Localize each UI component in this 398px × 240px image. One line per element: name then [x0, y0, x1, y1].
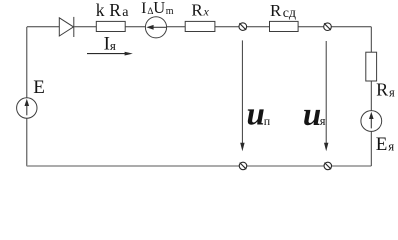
svg-text:E: E	[376, 134, 388, 155]
diode VD	[59, 17, 74, 37]
resistor Rсд	[270, 21, 299, 31]
terminal node bottom 2	[324, 162, 332, 170]
wire diode to resistor kRa	[74, 26, 96, 28]
svg-text:a: a	[122, 5, 129, 20]
wire source circle to resistor Rx	[167, 26, 186, 28]
svg-text:x: x	[203, 5, 210, 19]
svg-text:сд: сд	[283, 6, 296, 21]
svg-text:I: I	[141, 0, 146, 17]
resistor Rx	[185, 21, 215, 31]
svg-text:R: R	[376, 80, 388, 100]
wire right vertical lower	[370, 131, 372, 166]
voltage arrow uя	[324, 41, 328, 151]
wire right vertical upper	[370, 27, 372, 52]
current arrow Iя	[87, 52, 133, 56]
svg-text:E: E	[33, 77, 45, 98]
wire bottom horizontal	[27, 165, 372, 167]
terminal node bottom 1	[239, 162, 247, 170]
wire terminal 2 to top-right corner	[331, 26, 371, 28]
svg-text:п: п	[264, 114, 271, 128]
svg-text:U: U	[153, 0, 165, 17]
svg-text:u: u	[247, 97, 265, 133]
wire right vertical middle	[370, 81, 372, 111]
current source circle U1	[145, 17, 166, 38]
wire resistor kRa to source circle	[125, 26, 145, 28]
wire left vertical lower	[26, 118, 28, 166]
svg-text:R: R	[109, 0, 121, 20]
terminal node top 1	[239, 23, 247, 31]
svg-text:k: k	[96, 0, 105, 20]
source Eя	[361, 111, 382, 132]
svg-text:R: R	[270, 1, 282, 20]
svg-text:я: я	[110, 38, 116, 53]
wire resistor Rx to terminal 1	[215, 26, 239, 28]
svg-text:я: я	[389, 85, 395, 99]
svg-text:я: я	[388, 138, 394, 153]
resistor kRa	[96, 21, 125, 31]
voltage arrow uп	[240, 40, 244, 151]
svg-text:R: R	[191, 1, 203, 20]
svg-text:я: я	[320, 114, 326, 128]
resistor Rя	[366, 52, 377, 81]
wire top-left segment	[27, 26, 60, 28]
svg-text:u: u	[303, 97, 321, 133]
wire left vertical upper	[26, 27, 28, 98]
svg-text:m: m	[166, 6, 174, 17]
wire resistor Rsd to terminal 2	[298, 26, 324, 28]
wire terminal 1 to resistor Rsd	[247, 26, 270, 28]
source E	[17, 98, 37, 118]
terminal node top 2	[324, 23, 332, 31]
